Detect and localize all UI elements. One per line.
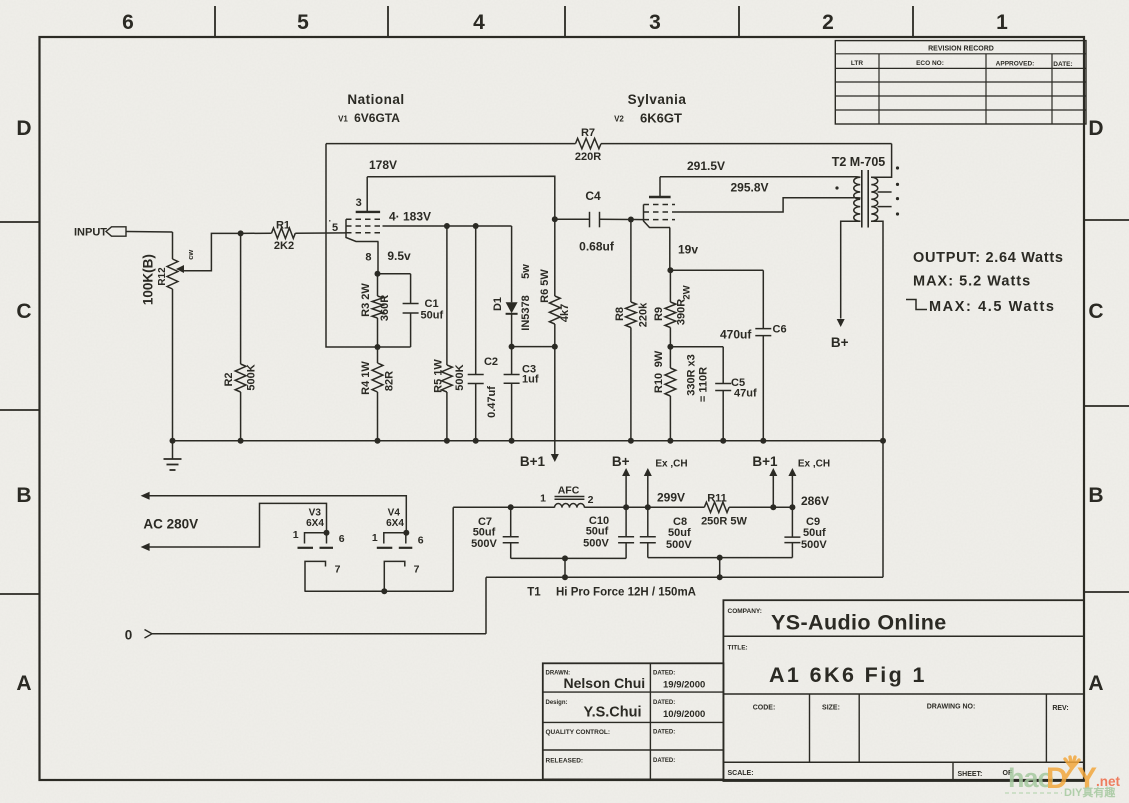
svg-text:R2: R2 bbox=[223, 372, 235, 386]
svg-text:4· 183V: 4· 183V bbox=[389, 210, 431, 224]
svg-text:7: 7 bbox=[335, 564, 341, 576]
svg-text:3: 3 bbox=[356, 197, 362, 209]
svg-text:2W: 2W bbox=[682, 285, 693, 299]
svg-text:500K: 500K bbox=[246, 364, 258, 390]
svg-text:AFC: AFC bbox=[558, 485, 580, 497]
svg-text:C: C bbox=[1088, 300, 1103, 323]
svg-text:2: 2 bbox=[822, 11, 834, 34]
svg-text:MAX: 5.2 Watts: MAX: 5.2 Watts bbox=[913, 274, 1031, 290]
svg-text:DATED:: DATED: bbox=[653, 758, 675, 764]
svg-text:C4: C4 bbox=[585, 189, 601, 203]
svg-text:500V: 500V bbox=[801, 539, 827, 551]
svg-text:5: 5 bbox=[297, 11, 309, 34]
svg-text:INPUT: INPUT bbox=[74, 227, 107, 239]
svg-text:R12: R12 bbox=[157, 267, 168, 286]
svg-text:6: 6 bbox=[418, 535, 424, 547]
svg-text:50uf: 50uf bbox=[668, 527, 691, 539]
svg-text:19v: 19v bbox=[678, 243, 698, 257]
svg-text:1: 1 bbox=[293, 529, 299, 541]
svg-text:9.5v: 9.5v bbox=[387, 249, 411, 263]
svg-text:295.8V: 295.8V bbox=[730, 181, 768, 195]
svg-text:8: 8 bbox=[365, 252, 371, 264]
svg-text:ECO NO:: ECO NO: bbox=[916, 60, 944, 67]
svg-text:IN5378: IN5378 bbox=[520, 295, 532, 330]
svg-text:500K: 500K bbox=[454, 364, 466, 390]
svg-text:R8: R8 bbox=[614, 307, 626, 321]
svg-text:National: National bbox=[347, 92, 404, 107]
svg-text:286V: 286V bbox=[801, 494, 829, 508]
svg-text:DATED:: DATED: bbox=[653, 700, 675, 706]
svg-text:1: 1 bbox=[372, 532, 378, 544]
svg-text:T2 M-705: T2 M-705 bbox=[832, 155, 886, 169]
svg-text:B: B bbox=[1088, 484, 1103, 507]
svg-text:SHEET:: SHEET: bbox=[958, 771, 983, 778]
svg-text:C: C bbox=[16, 300, 31, 323]
svg-text:DATE:: DATE: bbox=[1053, 61, 1072, 68]
svg-text:19/9/2000: 19/9/2000 bbox=[663, 680, 705, 691]
svg-text:5: 5 bbox=[332, 222, 338, 234]
svg-text:R9: R9 bbox=[653, 307, 665, 321]
svg-text:50uf: 50uf bbox=[421, 310, 444, 322]
svg-text:220k: 220k bbox=[638, 302, 650, 327]
svg-text:CODE:: CODE: bbox=[753, 705, 776, 712]
svg-text:REV:: REV: bbox=[1052, 705, 1068, 712]
svg-text:Design:: Design: bbox=[546, 700, 568, 706]
svg-text:COMPANY:: COMPANY: bbox=[728, 608, 762, 615]
svg-text:100K(B): 100K(B) bbox=[141, 254, 156, 305]
svg-text:1: 1 bbox=[996, 11, 1008, 34]
svg-text:D: D bbox=[1088, 117, 1103, 140]
svg-text:C6: C6 bbox=[773, 324, 787, 336]
svg-text:C2: C2 bbox=[484, 356, 498, 368]
svg-text:MAX: 4.5 Watts: MAX: 4.5 Watts bbox=[929, 299, 1056, 315]
svg-text:QUALITY CONTROL:: QUALITY CONTROL: bbox=[546, 729, 611, 736]
svg-text:R1: R1 bbox=[276, 220, 290, 232]
svg-text:47uf: 47uf bbox=[734, 388, 757, 400]
svg-text:R7: R7 bbox=[581, 127, 595, 139]
svg-text:SCALE:: SCALE: bbox=[728, 770, 754, 777]
svg-text:50uf: 50uf bbox=[473, 527, 496, 539]
svg-text:4k7: 4k7 bbox=[559, 304, 571, 322]
svg-text:V4: V4 bbox=[388, 508, 401, 519]
svg-text:V2: V2 bbox=[614, 115, 624, 124]
svg-text:B+1: B+1 bbox=[752, 454, 778, 469]
svg-text:Ex ,CH: Ex ,CH bbox=[655, 459, 687, 470]
svg-text:7: 7 bbox=[414, 564, 420, 576]
svg-text:T1: T1 bbox=[527, 587, 541, 599]
svg-text:SIZE:: SIZE: bbox=[822, 705, 840, 712]
svg-text:R11: R11 bbox=[707, 493, 727, 505]
svg-text:10/9/2000: 10/9/2000 bbox=[663, 709, 705, 720]
svg-text:LTR: LTR bbox=[851, 60, 863, 67]
svg-text:3: 3 bbox=[649, 11, 661, 34]
svg-text:C1: C1 bbox=[425, 298, 439, 310]
svg-text:Nelson Chui: Nelson Chui bbox=[564, 675, 646, 691]
svg-text:RELEASED:: RELEASED: bbox=[546, 758, 584, 765]
svg-text:TITLE:: TITLE: bbox=[728, 645, 748, 652]
svg-text:DATED:: DATED: bbox=[653, 671, 675, 677]
svg-text:V3: V3 bbox=[309, 508, 322, 519]
svg-text:291.5V: 291.5V bbox=[687, 159, 725, 173]
svg-text:Y.S.Chui: Y.S.Chui bbox=[584, 705, 642, 721]
svg-text:A: A bbox=[16, 672, 31, 695]
svg-text:1: 1 bbox=[540, 493, 546, 505]
svg-text:= 110R: = 110R bbox=[698, 367, 710, 402]
svg-text:50uf: 50uf bbox=[803, 527, 826, 539]
svg-text:R5 1W: R5 1W bbox=[432, 359, 444, 393]
svg-text:0.68uf: 0.68uf bbox=[579, 240, 615, 254]
svg-text:B: B bbox=[16, 484, 31, 507]
svg-text:Ex ,CH: Ex ,CH bbox=[798, 459, 830, 470]
svg-text:APPROVED:: APPROVED: bbox=[996, 61, 1035, 68]
svg-text:250R 5W: 250R 5W bbox=[701, 516, 747, 528]
svg-text:R3 2W: R3 2W bbox=[360, 283, 372, 317]
svg-text:OUTPUT: 2.64 Watts: OUTPUT: 2.64 Watts bbox=[913, 250, 1064, 266]
svg-text:R10: R10 bbox=[653, 373, 665, 393]
svg-text:500V: 500V bbox=[583, 538, 609, 550]
svg-text:DRAWING NO:: DRAWING NO: bbox=[927, 704, 976, 711]
svg-text:B+1: B+1 bbox=[520, 454, 546, 469]
svg-text:390R: 390R bbox=[676, 299, 688, 325]
svg-text:D: D bbox=[16, 117, 31, 140]
svg-text:0.47uf: 0.47uf bbox=[486, 386, 498, 418]
svg-text:cw: cw bbox=[186, 250, 195, 260]
svg-text:6X4: 6X4 bbox=[386, 518, 404, 529]
svg-text:500V: 500V bbox=[666, 539, 692, 551]
svg-text:2: 2 bbox=[588, 494, 594, 506]
svg-text:2K2: 2K2 bbox=[274, 240, 294, 252]
svg-text:299V: 299V bbox=[657, 491, 685, 505]
svg-text:178V: 178V bbox=[369, 158, 397, 172]
svg-text:6X4: 6X4 bbox=[306, 518, 324, 529]
svg-text:AC 280V: AC 280V bbox=[143, 517, 198, 532]
svg-text:220R: 220R bbox=[575, 151, 601, 163]
svg-text:R4 1W: R4 1W bbox=[360, 361, 372, 395]
svg-text:R6 5W: R6 5W bbox=[539, 269, 551, 303]
svg-text:YS-Audio Online: YS-Audio Online bbox=[771, 611, 947, 635]
svg-text:0: 0 bbox=[125, 628, 133, 643]
svg-text:1uf: 1uf bbox=[522, 374, 539, 386]
svg-text:5w: 5w bbox=[520, 264, 532, 279]
svg-text:B+: B+ bbox=[831, 335, 849, 350]
svg-text:6K6GT: 6K6GT bbox=[640, 111, 682, 126]
svg-text:360R: 360R bbox=[379, 295, 391, 321]
svg-text:Hi Pro Force 12H / 150mA: Hi Pro Force 12H / 150mA bbox=[556, 587, 696, 599]
svg-text:Sylvania: Sylvania bbox=[628, 92, 687, 107]
svg-text:50uf: 50uf bbox=[586, 526, 609, 538]
svg-text:330R x3: 330R x3 bbox=[686, 354, 698, 396]
svg-text:470uf: 470uf bbox=[720, 328, 752, 342]
svg-text:REVISION RECORD: REVISION RECORD bbox=[928, 46, 994, 53]
svg-text:·: · bbox=[329, 216, 332, 226]
svg-text:82R: 82R bbox=[384, 371, 396, 391]
svg-text:6V6GTA: 6V6GTA bbox=[354, 111, 400, 125]
svg-text:9W: 9W bbox=[653, 350, 665, 367]
svg-text:D1: D1 bbox=[492, 297, 504, 311]
svg-text:V1: V1 bbox=[338, 115, 348, 124]
svg-text:6: 6 bbox=[339, 533, 345, 545]
svg-text:DATED:: DATED: bbox=[653, 730, 675, 736]
svg-text:DIY真有趣: DIY真有趣 bbox=[1064, 785, 1116, 799]
svg-text:A1 6K6 Fig 1: A1 6K6 Fig 1 bbox=[769, 663, 927, 687]
svg-text:A: A bbox=[1088, 672, 1103, 695]
svg-text:6: 6 bbox=[122, 11, 134, 34]
svg-text:B+: B+ bbox=[612, 454, 630, 469]
svg-text:4: 4 bbox=[473, 11, 485, 34]
svg-text:500V: 500V bbox=[471, 538, 497, 550]
